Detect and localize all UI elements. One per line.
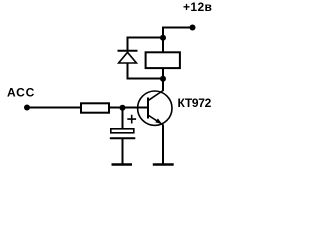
svg-text:+12в: +12в — [183, 0, 212, 14]
svg-text:АСС: АСС — [7, 86, 35, 100]
svg-text:КТ972: КТ972 — [178, 96, 212, 110]
